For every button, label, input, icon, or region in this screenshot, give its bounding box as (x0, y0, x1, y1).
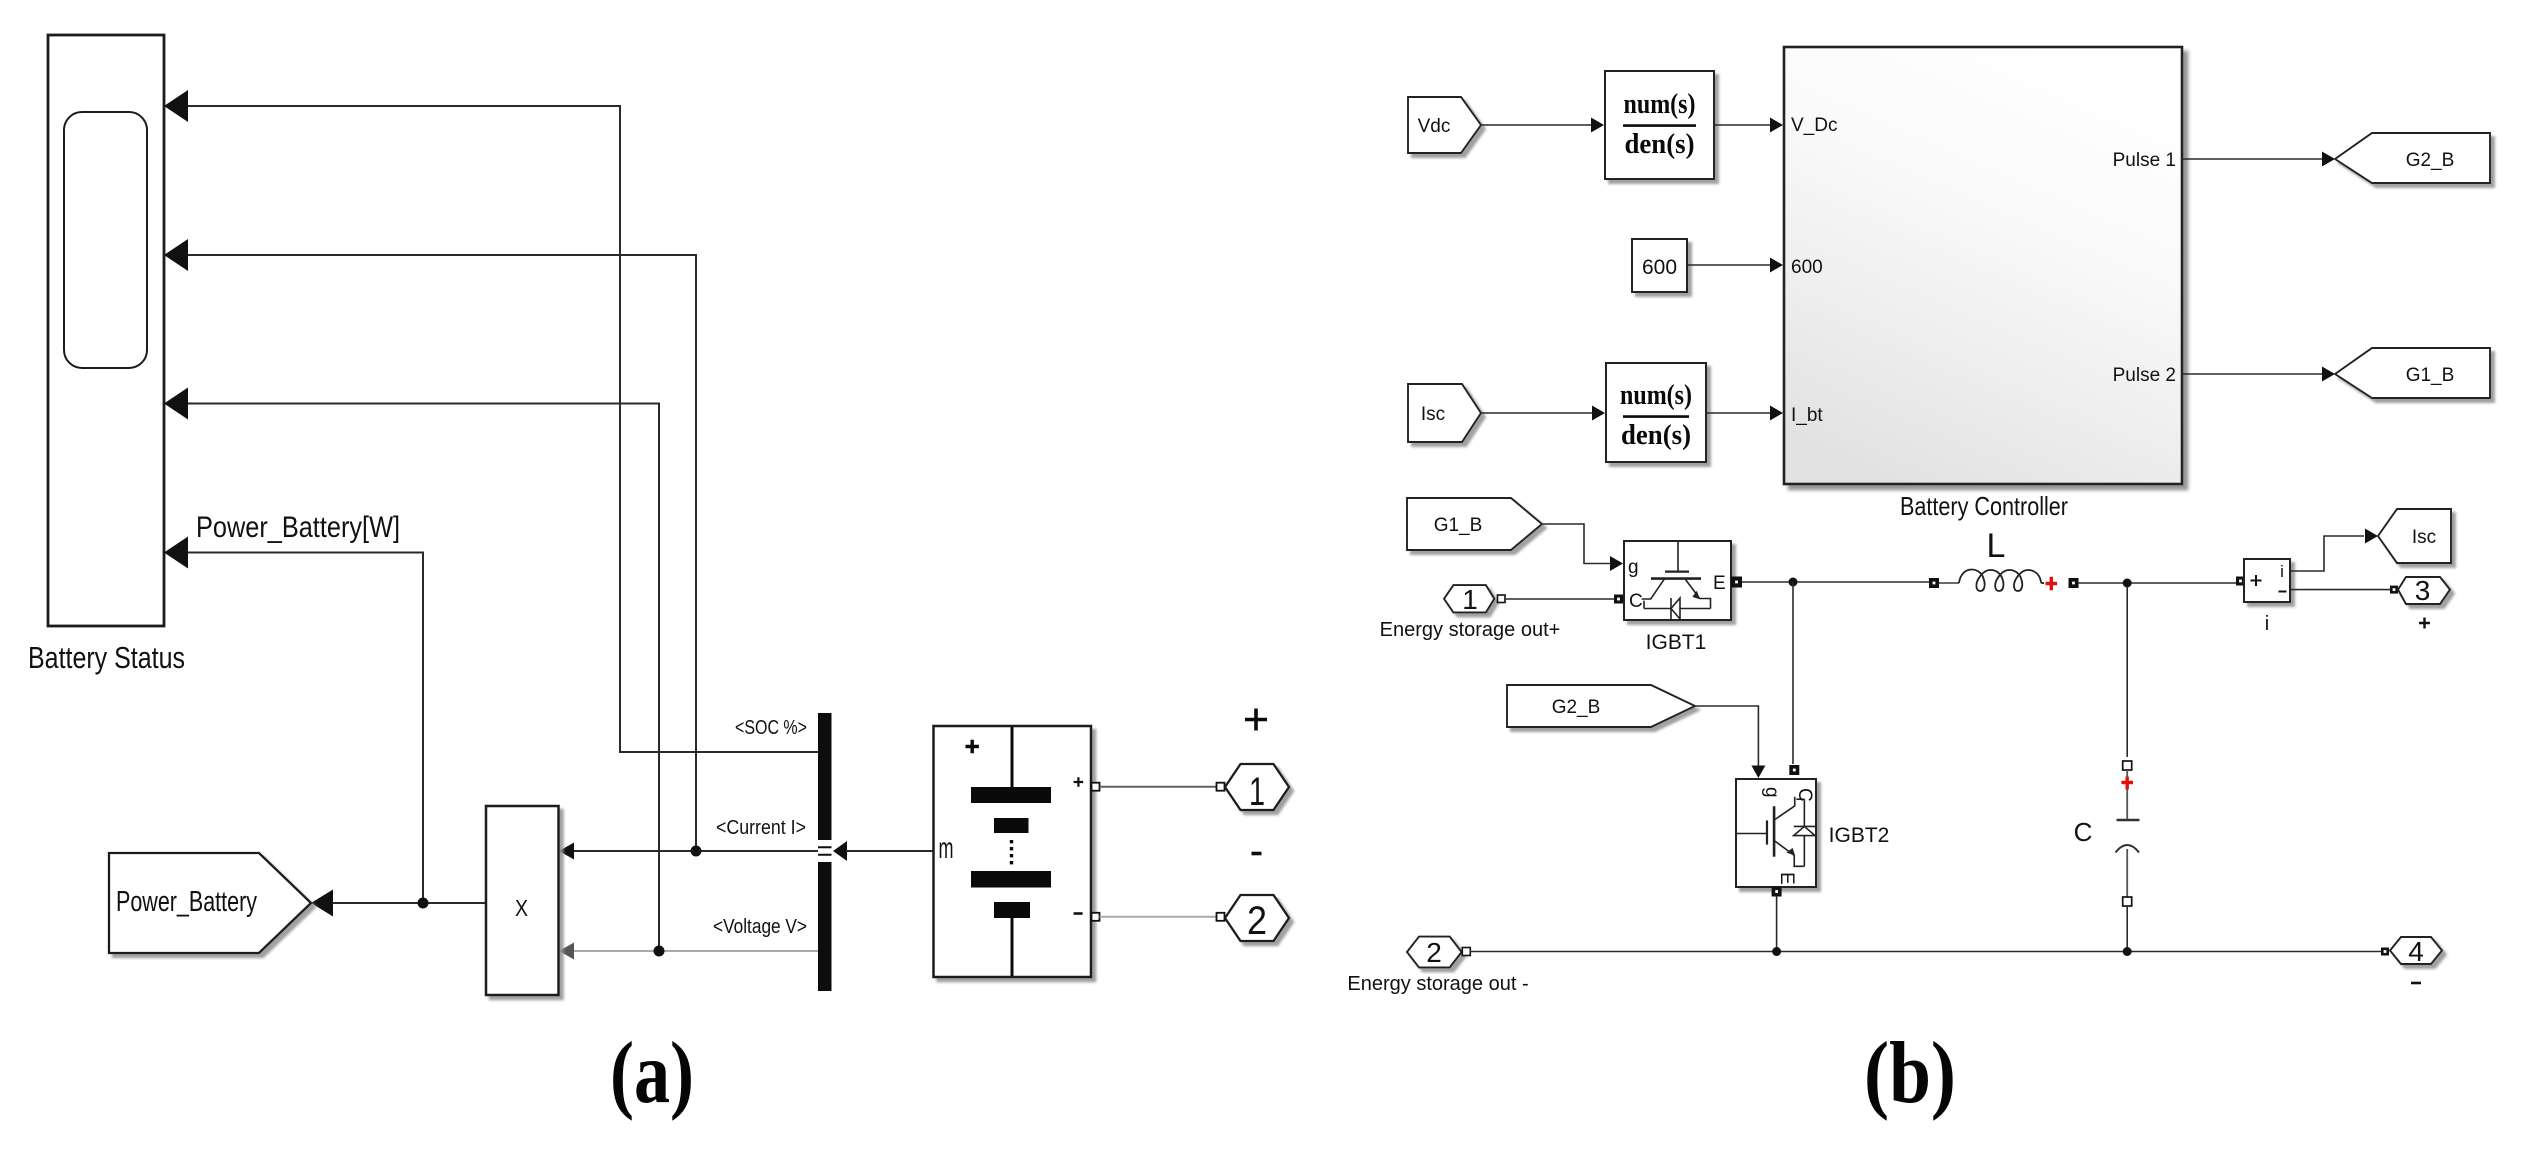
svg-text:G1_B: G1_B (2406, 365, 2455, 386)
svg-text:<Current I>: <Current I> (716, 817, 806, 839)
svg-text:3: 3 (2415, 575, 2431, 606)
svg-text:G2_B: G2_B (1552, 697, 1601, 718)
svg-text:<Voltage V>: <Voltage V> (713, 916, 807, 938)
svg-text:num(s): num(s) (1624, 89, 1696, 120)
svg-text:den(s): den(s) (1625, 129, 1695, 160)
svg-text:Energy storage out+: Energy storage out+ (1380, 619, 1561, 641)
svg-text:Pulse 1: Pulse 1 (2113, 150, 2176, 171)
svg-text:C: C (1794, 788, 1815, 802)
svg-text:Battery Controller: Battery Controller (1900, 491, 2068, 521)
svg-text:i: i (2265, 613, 2269, 635)
svg-text:den(s): den(s) (1621, 420, 1691, 451)
svg-text:I_bt: I_bt (1791, 405, 1823, 426)
svg-text:Pulse 2: Pulse 2 (2113, 365, 2176, 386)
svg-text:L: L (1987, 527, 2006, 565)
svg-text:4: 4 (2408, 936, 2424, 967)
svg-text:(a): (a) (610, 1025, 694, 1122)
svg-text:<SOC %>: <SOC %> (735, 717, 807, 739)
svg-text:g: g (1761, 787, 1782, 798)
svg-text:X: X (515, 895, 528, 921)
svg-text:Energy storage out -: Energy storage out - (1347, 973, 1528, 995)
svg-text:E: E (1713, 573, 1726, 594)
svg-text:G1_B: G1_B (1434, 515, 1483, 536)
svg-text:(b): (b) (1864, 1025, 1956, 1122)
svg-text:V_Dc: V_Dc (1791, 115, 1837, 136)
svg-text:m: m (939, 832, 954, 865)
svg-text:Vdc: Vdc (1418, 116, 1451, 137)
svg-text:Battery Status: Battery Status (28, 640, 185, 675)
svg-text:2: 2 (1247, 899, 1267, 943)
svg-text:g: g (1628, 557, 1639, 578)
svg-text:IGBT1: IGBT1 (1646, 631, 1707, 654)
svg-text:600: 600 (1791, 257, 1823, 278)
svg-text:E: E (1776, 872, 1797, 885)
svg-text:C: C (1629, 591, 1643, 612)
svg-text:C: C (2074, 817, 2093, 847)
svg-text:Power_Battery: Power_Battery (116, 886, 257, 918)
svg-text:i: i (2280, 562, 2284, 581)
svg-text:Power_Battery[W]: Power_Battery[W] (196, 511, 400, 544)
svg-text:2: 2 (1426, 937, 1442, 968)
svg-text:G2_B: G2_B (2406, 150, 2455, 171)
svg-text:Isc: Isc (2412, 527, 2436, 548)
svg-text:num(s): num(s) (1620, 380, 1692, 411)
svg-text:1: 1 (1249, 770, 1265, 814)
svg-text:600: 600 (1642, 256, 1677, 279)
svg-text:1: 1 (1462, 584, 1478, 615)
svg-text:Isc: Isc (1421, 404, 1445, 425)
svg-text:IGBT2: IGBT2 (1829, 824, 1890, 847)
